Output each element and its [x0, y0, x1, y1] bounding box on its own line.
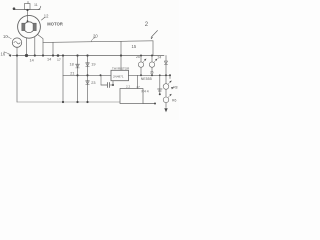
svg-text:2.2: 2.2	[126, 85, 131, 89]
svg-text:16: 16	[1, 52, 6, 57]
svg-text:21: 21	[70, 72, 74, 76]
svg-text:14: 14	[30, 58, 34, 62]
svg-text:R4 4: R4 4	[142, 90, 149, 94]
svg-text:27: 27	[137, 85, 141, 89]
svg-text:23: 23	[91, 81, 95, 85]
svg-text:20: 20	[93, 34, 98, 39]
svg-text:R8: R8	[173, 85, 177, 89]
svg-text:11: 11	[34, 3, 38, 7]
svg-text:26: 26	[150, 71, 154, 75]
svg-text:18: 18	[70, 62, 74, 66]
svg-text:17: 17	[57, 58, 61, 62]
svg-text:25: 25	[136, 55, 140, 59]
svg-text:15: 15	[132, 44, 137, 49]
svg-text:R6: R6	[172, 99, 176, 103]
svg-text:2N4871: 2N4871	[113, 74, 124, 78]
svg-text:NE555: NE555	[141, 77, 152, 81]
svg-text:MOTOR: MOTOR	[47, 21, 63, 26]
svg-text:10: 10	[3, 34, 8, 39]
svg-text:12: 12	[44, 14, 49, 19]
svg-text:14: 14	[47, 58, 51, 62]
svg-text:24: 24	[158, 56, 162, 60]
svg-text:THYRISTOR: THYRISTOR	[112, 67, 130, 71]
svg-text:19: 19	[91, 62, 95, 66]
